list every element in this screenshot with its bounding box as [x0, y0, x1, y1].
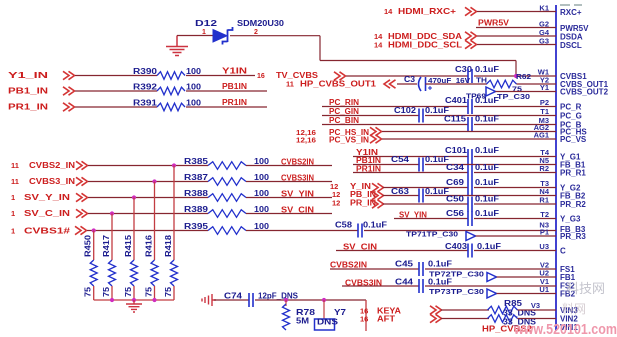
svg-text:R391: R391: [133, 99, 158, 108]
svg-text:www.520101.com: www.520101.com: [513, 322, 617, 337]
svg-text:TP_C30: TP_C30: [497, 92, 530, 101]
wire: [425, 164, 556, 166]
wire: [474, 218, 556, 220]
wire: [425, 115, 556, 117]
svg-text:2: 2: [254, 29, 258, 36]
svg-text:C403: C403: [445, 242, 468, 251]
wire: [346, 75, 468, 77]
wire: [246, 230, 358, 232]
wire: [397, 83, 417, 85]
resistor R415 75: [133, 198, 135, 261]
svg-text:PC_R: PC_R: [560, 102, 582, 111]
wire: [382, 138, 556, 140]
wire: [246, 165, 332, 167]
wire: [330, 268, 419, 270]
svg-text:R388: R388: [184, 189, 209, 198]
svg-text:R387: R387: [184, 173, 209, 182]
wire: [214, 299, 249, 301]
svg-text:科技网: 科技网: [566, 281, 605, 296]
svg-text:SDM20U30: SDM20U30: [237, 19, 285, 28]
svg-text:CVBS3IN: CVBS3IN: [281, 174, 314, 183]
wire: [88, 181, 208, 183]
svg-text:75: 75: [164, 286, 173, 297]
svg-text:PC_VS: PC_VS: [560, 135, 587, 144]
svg-text:R395: R395: [184, 222, 209, 231]
svg-text:CVBS1#: CVBS1#: [24, 226, 70, 236]
svg-text:PWR5V: PWR5V: [478, 19, 510, 28]
wire: [496, 91, 557, 93]
svg-text:PC_G: PC_G: [560, 111, 582, 120]
svg-text:1: 1: [11, 209, 15, 218]
wire: [75, 90, 157, 92]
svg-text:0.1uF: 0.1uF: [475, 163, 499, 172]
svg-text:C63: C63: [391, 187, 410, 196]
svg-text:R62: R62: [516, 72, 531, 81]
svg-text:14: 14: [374, 41, 383, 50]
svg-text:75: 75: [124, 286, 133, 297]
wire: [425, 285, 556, 287]
svg-text:100: 100: [254, 222, 270, 231]
svg-text:TP71TP_C30: TP71TP_C30: [406, 230, 458, 239]
wire: [87, 230, 208, 232]
svg-text:C: C: [560, 246, 566, 255]
wire: [322, 106, 468, 108]
svg-text:C69: C69: [446, 178, 465, 187]
svg-text:DSCL: DSCL: [560, 41, 582, 50]
svg-text:100: 100: [254, 157, 270, 166]
svg-text:K1: K1: [539, 4, 549, 13]
svg-text:75: 75: [84, 286, 93, 297]
wire: [518, 318, 557, 320]
svg-text:Y7: Y7: [334, 307, 346, 317]
svg-text:Y1: Y1: [540, 83, 549, 92]
svg-text:T2: T2: [540, 210, 549, 219]
svg-text:R392: R392: [133, 83, 158, 92]
svg-text:75: 75: [102, 286, 111, 297]
wire: [441, 318, 489, 320]
svg-text:G3: G3: [539, 37, 549, 46]
resistor R418 75: [173, 166, 175, 261]
svg-text:U3: U3: [539, 242, 549, 251]
svg-text:C115: C115: [444, 115, 467, 124]
wire: [353, 156, 468, 158]
wire: [394, 218, 468, 220]
svg-text:PC_VS_IN: PC_VS_IN: [329, 136, 369, 145]
svg-text:R418: R418: [164, 234, 173, 257]
svg-text:HP_CVBS_OUT1: HP_CVBS_OUT1: [300, 79, 376, 89]
svg-text:C74: C74: [224, 292, 243, 301]
wire: [364, 230, 556, 232]
svg-text:C56: C56: [446, 209, 465, 218]
svg-text:HDMI_RXC+: HDMI_RXC+: [398, 6, 456, 16]
wire: [353, 164, 419, 166]
svg-text:R416: R416: [145, 234, 154, 257]
svg-text:0.1uF: 0.1uF: [475, 96, 499, 105]
wire: [177, 35, 213, 37]
svg-text:0.1uF: 0.1uF: [475, 115, 499, 124]
svg-text:PC_RIN: PC_RIN: [329, 98, 359, 107]
svg-text:R389: R389: [184, 205, 209, 214]
svg-text:P1: P1: [540, 228, 549, 237]
svg-text:11: 11: [286, 80, 294, 89]
svg-text:16: 16: [360, 315, 368, 324]
resistor R84 33_DNS: [488, 315, 518, 323]
svg-text:R417: R417: [102, 234, 111, 257]
wire: [365, 300, 367, 331]
resistor R417 75: [111, 214, 113, 261]
svg-text:PR_R2: PR_R2: [560, 200, 586, 209]
svg-text:100: 100: [186, 99, 202, 108]
svg-text:0.1uF: 0.1uF: [475, 195, 499, 204]
wire: [246, 181, 332, 183]
svg-text:11: 11: [11, 177, 19, 186]
svg-text:1: 1: [11, 227, 15, 236]
svg-text:SV_C_IN: SV_C_IN: [24, 208, 70, 218]
node junction R78: [284, 298, 288, 302]
crystal Y7 DNS: [323, 300, 325, 319]
wire: [518, 309, 557, 311]
svg-text:C3: C3: [404, 75, 416, 84]
node junction SV_Y_IN: [132, 195, 136, 199]
svg-text:100: 100: [254, 205, 270, 214]
svg-text:C50: C50: [446, 195, 465, 204]
svg-text:R450: R450: [84, 234, 93, 257]
wire: [476, 235, 557, 237]
svg-text:CVBS_OUT2: CVBS_OUT2: [560, 87, 609, 96]
node junction SV_C_IN: [110, 211, 114, 215]
svg-text:14: 14: [384, 7, 393, 16]
svg-text:0.1uF: 0.1uF: [475, 146, 499, 155]
svg-text:R390: R390: [133, 67, 158, 76]
svg-text:Y1IN: Y1IN: [222, 67, 247, 76]
wire: [425, 195, 556, 197]
svg-text:CVBS3_IN: CVBS3_IN: [29, 176, 75, 186]
svg-text:AFT: AFT: [377, 314, 396, 324]
wire: [186, 90, 267, 92]
node junction Y7: [322, 298, 326, 302]
svg-text:R385: R385: [184, 157, 209, 166]
svg-text:12pF_DNS: 12pF_DNS: [258, 292, 299, 301]
wire: [474, 187, 556, 189]
svg-text:PB1IN: PB1IN: [222, 82, 247, 91]
wire: [441, 309, 489, 311]
svg-text:C102: C102: [394, 106, 417, 115]
svg-text:PC_GIN: PC_GIN: [329, 107, 359, 116]
svg-text:11: 11: [11, 161, 19, 170]
svg-text:C101: C101: [445, 146, 468, 155]
node junction bottom 1: [110, 298, 114, 302]
svg-text:PC_BIN: PC_BIN: [329, 116, 359, 125]
svg-text:0.1uF: 0.1uF: [428, 278, 452, 287]
svg-text:SV_Y_IN: SV_Y_IN: [24, 192, 70, 202]
svg-text:SV_YIN: SV_YIN: [281, 190, 314, 199]
node junction bottom 2: [132, 298, 136, 302]
svg-text:0.1uF: 0.1uF: [363, 221, 387, 230]
svg-text:0.1uF: 0.1uF: [475, 178, 499, 187]
svg-text:SV_CIN: SV_CIN: [281, 206, 314, 215]
node junction bottom 3: [152, 298, 156, 302]
svg-text:TP73TP_C30: TP73TP_C30: [429, 287, 484, 296]
wire: [474, 156, 556, 158]
ground: [166, 36, 188, 56]
svg-text:CVBS2_IN: CVBS2_IN: [29, 160, 75, 170]
ground: [202, 294, 216, 306]
wire: [426, 83, 488, 85]
wire: [88, 197, 208, 199]
node junction CVBS1#: [92, 228, 96, 232]
wire: [474, 203, 556, 205]
svg-text:C44: C44: [395, 278, 414, 287]
svg-text:5M: 5M: [296, 316, 309, 326]
wire: [230, 35, 320, 37]
svg-text:12,16: 12,16: [296, 136, 316, 145]
wire: [186, 75, 255, 77]
svg-text:C34: C34: [446, 163, 465, 172]
wire: [474, 172, 556, 174]
wire: [246, 197, 332, 199]
ground: [126, 300, 142, 312]
wire: [255, 299, 366, 301]
svg-text:75: 75: [145, 286, 154, 297]
resistor R450 75: [93, 231, 95, 261]
wire: [342, 285, 419, 287]
wire: [383, 195, 419, 197]
svg-text:PB1_IN: PB1_IN: [8, 86, 48, 96]
svg-text:Y1_IN: Y1_IN: [8, 70, 48, 80]
wire: [186, 106, 267, 108]
svg-text:CVBS2IN: CVBS2IN: [281, 158, 314, 167]
svg-text:R415: R415: [124, 234, 133, 257]
svg-text:RXC+: RXC+: [560, 8, 582, 17]
svg-text:PR_R1: PR_R1: [560, 168, 586, 177]
wire: [383, 187, 468, 189]
diode D12 SDM20U30: [213, 30, 227, 43]
wire: [474, 250, 556, 252]
svg-text:C401: C401: [445, 96, 468, 105]
svg-text:HDMI_DDC_SCL: HDMI_DDC_SCL: [388, 40, 462, 50]
node junction CVBS2_IN: [172, 163, 176, 167]
svg-text:Y_G3: Y_G3: [560, 214, 581, 223]
svg-text:C45: C45: [395, 260, 414, 269]
wire: [336, 250, 468, 252]
svg-text:CVBS2IN: CVBS2IN: [330, 261, 367, 270]
svg-text:V3: V3: [531, 301, 540, 310]
wire bottom bus: [94, 299, 174, 301]
wire: [474, 106, 556, 108]
svg-text:1: 1: [11, 193, 15, 202]
svg-text:PR_R3: PR_R3: [560, 232, 586, 241]
svg-text:100: 100: [186, 83, 202, 92]
svg-text:C58: C58: [335, 221, 353, 230]
svg-text:TH: TH: [476, 76, 487, 85]
svg-text:U1: U1: [539, 285, 549, 294]
svg-text:16: 16: [257, 73, 265, 80]
wire: [322, 115, 419, 117]
wire: [497, 293, 557, 295]
svg-text:100: 100: [186, 67, 202, 76]
wire: [75, 75, 157, 77]
svg-text:料网: 料网: [562, 302, 586, 316]
svg-text:DNS: DNS: [317, 317, 338, 327]
wire: [497, 276, 557, 278]
svg-text:0.1uF: 0.1uF: [477, 242, 501, 251]
wire: [425, 268, 556, 270]
svg-text:AG1: AG1: [534, 131, 549, 140]
wire: [383, 203, 468, 205]
wire: [88, 165, 208, 167]
svg-text:R1: R1: [539, 196, 549, 205]
resistor R78 5M: [285, 300, 287, 306]
node junction CVBS3_IN: [152, 179, 156, 183]
svg-text:0.1uF: 0.1uF: [475, 209, 499, 218]
svg-text:T1: T1: [540, 107, 549, 116]
svg-text:0.1uF: 0.1uF: [475, 65, 499, 74]
svg-text:P2: P2: [540, 98, 549, 107]
svg-text:C30: C30: [455, 65, 473, 74]
wire: [474, 75, 556, 77]
wire: [382, 131, 556, 133]
svg-text:PR1IN: PR1IN: [222, 98, 247, 107]
wire: [474, 124, 556, 126]
wire: [75, 106, 157, 108]
svg-text:R2: R2: [539, 164, 549, 173]
svg-text:PR1_IN: PR1_IN: [8, 102, 48, 112]
svg-text:1: 1: [202, 29, 206, 36]
wire: [353, 172, 468, 174]
resistor R416 75: [154, 182, 156, 261]
svg-text:100: 100: [254, 173, 270, 182]
svg-text:C54: C54: [391, 155, 410, 164]
svg-text:100: 100: [254, 189, 270, 198]
svg-text:D12: D12: [195, 19, 218, 28]
wire: [322, 124, 468, 126]
svg-text:12: 12: [332, 199, 340, 208]
svg-text:0.1uF: 0.1uF: [428, 260, 452, 269]
op-amp U? IC left edge (video processor): [555, 5, 557, 331]
wire: [88, 213, 208, 215]
wire: [246, 213, 332, 215]
wire: [517, 83, 557, 85]
node junction CVBS1: [514, 74, 518, 78]
